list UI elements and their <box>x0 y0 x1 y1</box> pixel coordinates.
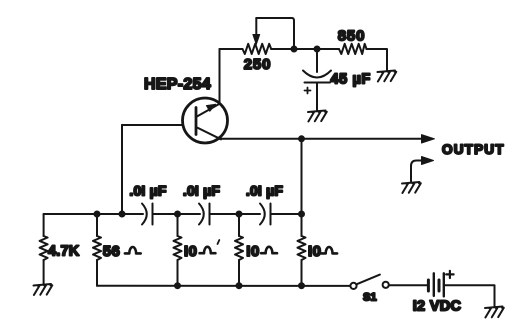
wire switch to battery <box>389 284 427 286</box>
transistor Q1 base bar <box>195 108 198 135</box>
ground G4 <box>34 284 53 295</box>
potentiometer wiper arrow <box>253 18 260 45</box>
resistor R4 56 ohm <box>93 214 101 286</box>
ground G2 <box>308 111 327 122</box>
wire pot to 850 <box>271 48 339 50</box>
svg-text:4.7K: 4.7K <box>48 244 80 260</box>
svg-text:45 µF: 45 µF <box>331 72 371 88</box>
transistor Q1 circle <box>183 98 228 143</box>
ground G5 <box>485 307 504 318</box>
wire RC top rail segment 4 <box>271 213 302 215</box>
output arrowhead <box>422 135 435 143</box>
svg-text:56: 56 <box>103 243 121 260</box>
svg-text:HEP-254: HEP-254 <box>144 76 211 93</box>
capacitor C4 45 uF curved plate <box>303 71 331 78</box>
wire node C down to RC rail <box>301 139 303 214</box>
svg-text:I0: I0 <box>308 243 322 260</box>
battery plus sign <box>446 271 453 278</box>
wire emitter up to top rail <box>219 49 221 104</box>
svg-text:.0I µF: .0I µF <box>246 183 284 199</box>
resistor R3 4.7K <box>40 214 48 285</box>
wire RC top rail segment 2 <box>153 213 201 215</box>
capacitor C3 .01 uF <box>260 204 271 225</box>
return arrow from ground <box>411 157 434 183</box>
svg-text:250: 250 <box>244 56 271 73</box>
switch S1 left contact <box>350 283 356 289</box>
wire collector output line <box>219 138 422 140</box>
wire battery to right corner down <box>444 285 495 306</box>
potentiometer R1 250 zigzag <box>243 44 272 54</box>
svg-text:850: 850 <box>338 28 365 45</box>
wire top rail from emitter corner to pot <box>220 48 243 50</box>
svg-text:I2 VDC: I2 VDC <box>413 299 462 315</box>
svg-text:OUTPUT: OUTPUT <box>442 142 505 157</box>
switch S1 right contact <box>383 282 389 288</box>
node dots on bottom rail <box>174 282 305 289</box>
switch S1 lever <box>357 275 380 285</box>
resistor R6 10 ohm <box>235 214 243 286</box>
wire C4 to ground <box>316 83 318 111</box>
svg-text:S1: S1 <box>363 292 377 304</box>
wire RC top rail segment 3 <box>210 213 261 215</box>
transistor Q1 collector lead <box>196 127 221 139</box>
capacitor C4 plus sign <box>305 88 311 94</box>
label 56 ohm <box>103 243 141 260</box>
node C junction dot on collector line <box>298 135 305 142</box>
node B junction dot <box>314 46 321 53</box>
label 10 ohm <box>246 243 277 260</box>
capacitor C1 .01 uF <box>142 204 153 225</box>
wire base down to RC rail <box>121 125 123 214</box>
label 10 ohm <box>308 243 337 260</box>
capacitor C2 .01 uF <box>199 204 210 225</box>
ground G1 <box>378 71 397 82</box>
svg-text:I0: I0 <box>184 243 198 260</box>
capacitor C4 45 uF straight plate <box>305 82 331 84</box>
svg-text:.0I µF: .0I µF <box>129 183 167 199</box>
wire base to left <box>122 124 183 126</box>
svg-text:.0I µF: .0I µF <box>183 183 221 199</box>
svg-text:I0: I0 <box>246 243 260 260</box>
node A junction dot <box>291 46 298 53</box>
resistor R2 850 zigzag <box>339 44 367 54</box>
label 10 ohm <box>184 240 219 260</box>
wire RC top rail segment 1 <box>44 213 143 215</box>
node dots on RC rail <box>94 211 306 218</box>
resistor R5 10 ohm <box>174 214 182 286</box>
ground G3 <box>402 182 421 193</box>
wire 850 to right corner down to ground <box>367 49 388 71</box>
wire RC bottom rail <box>97 285 350 287</box>
transistor Q1 emitter lead with arrow <box>196 104 220 118</box>
capacitor C4 45 uF lead <box>316 49 318 72</box>
resistor R7 10 ohm <box>298 214 306 286</box>
battery B1 plates <box>428 273 443 296</box>
wiper loop wire to node A <box>256 18 294 49</box>
